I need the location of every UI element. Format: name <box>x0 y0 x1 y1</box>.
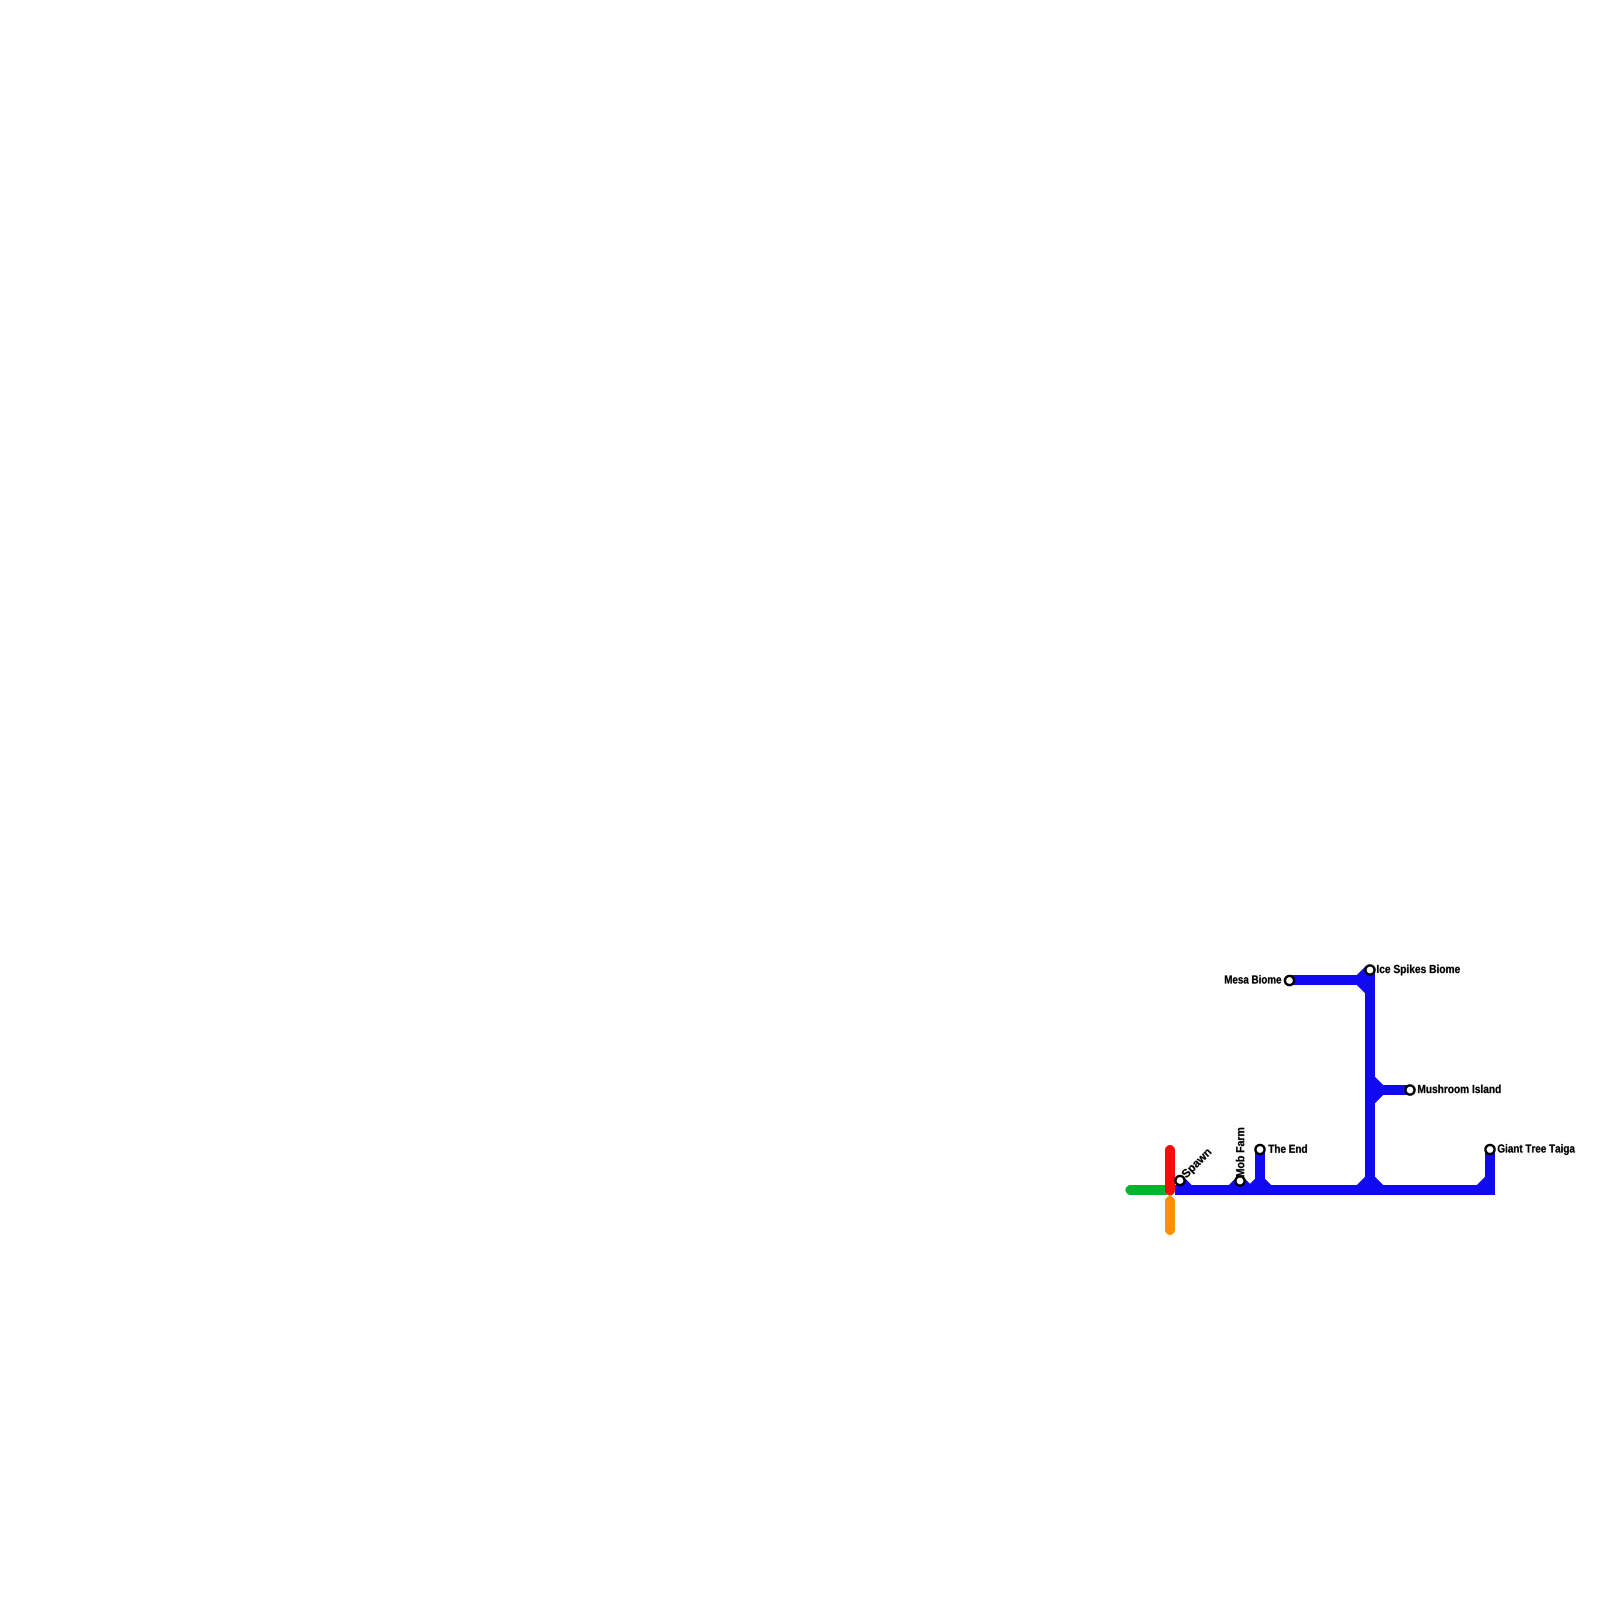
label Spawn <box>1181 1147 1214 1180</box>
green line west <box>1131 1185 1166 1195</box>
wire mushroom stub horizontal <box>1381 1085 1410 1095</box>
wire giant tree taiga stub vertical <box>1485 1150 1495 1191</box>
label The End <box>1268 1144 1307 1153</box>
label Mob Farm <box>1236 1128 1245 1177</box>
blue metro line network <box>1180 969 1490 1190</box>
label Giant Tree Taiga <box>1498 1144 1575 1155</box>
wire mushroom diagonal down <box>1370 1090 1381 1101</box>
node Mob Farm <box>1235 1176 1244 1185</box>
node Mesa Biome <box>1285 976 1294 985</box>
wire spawn diagonal <box>1180 1181 1190 1191</box>
wire giant tree taiga diagonal <box>1479 1179 1490 1190</box>
labels <box>1181 965 1575 1181</box>
station markers <box>1175 965 1494 1185</box>
node Spawn <box>1175 1176 1184 1185</box>
red line north <box>1165 1150 1175 1191</box>
node The End <box>1255 1145 1264 1154</box>
wire the end diagonal left <box>1251 1181 1260 1190</box>
wire mob farm diagonal right <box>1240 1181 1249 1190</box>
label Mushroom Island <box>1418 1085 1501 1094</box>
wire trunk horizontal <box>1180 1185 1490 1195</box>
wire mesa diagonal down <box>1359 980 1370 991</box>
node Mushroom Island <box>1405 1085 1414 1094</box>
orange line south <box>1165 1201 1175 1230</box>
label Ice Spikes Biome <box>1377 965 1460 976</box>
wire main vertical diagonal left <box>1359 1179 1370 1190</box>
wire mesa diagonal up <box>1359 969 1370 980</box>
wire mob farm diagonal left <box>1231 1181 1240 1190</box>
node Ice Spikes Biome <box>1365 965 1374 974</box>
wire main vertical diagonal right <box>1370 1179 1381 1190</box>
node Giant Tree Taiga <box>1485 1145 1494 1154</box>
wire main vertical branch <box>1365 969 1375 1179</box>
wire mesa branch horizontal <box>1290 975 1359 985</box>
label Mesa Biome <box>1225 975 1281 984</box>
wire the end diagonal right <box>1260 1181 1269 1190</box>
wire mushroom diagonal up <box>1370 1079 1381 1090</box>
wire the end stub vertical <box>1255 1150 1265 1182</box>
